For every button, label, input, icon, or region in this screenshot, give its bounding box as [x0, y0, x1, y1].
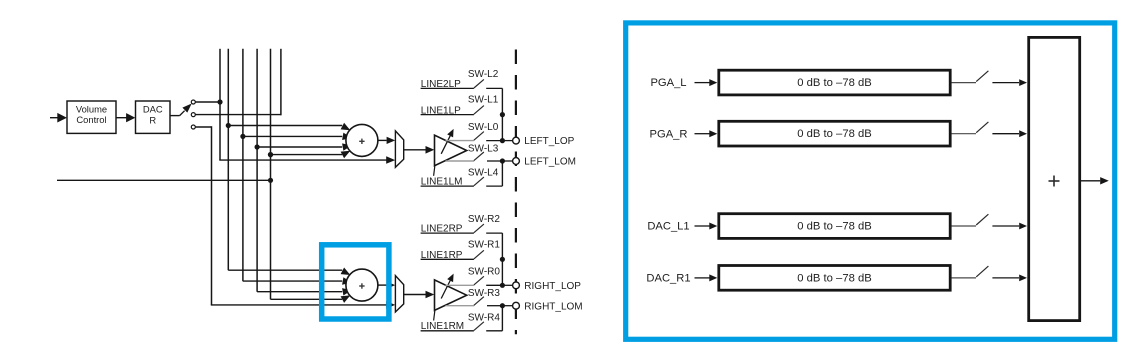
- svg-text:PGA_L: PGA_L: [650, 77, 686, 89]
- arrowhead left summing input 2: [342, 133, 352, 140]
- amp right output triangle: [435, 280, 467, 311]
- wire SW0 to rail: [486, 140, 502, 142]
- wire SW0 to rail: [486, 284, 502, 286]
- arrowhead DAC_L1 into attenuator: [709, 223, 717, 230]
- arrowhead left summing input 1: [341, 123, 351, 131]
- label DAC_R1: [646, 273, 690, 285]
- switch SW-R3: [474, 297, 484, 306]
- junction rail LOM: [500, 158, 505, 163]
- svg-text:RIGHT_LOM: RIGHT_LOM: [524, 301, 582, 312]
- svg-text:0 dB to –78 dB: 0 dB to –78 dB: [797, 77, 871, 89]
- switch SW arm DAC R: [180, 111, 185, 116]
- wire left mux to amp: [404, 149, 426, 151]
- arrowhead DAC_R1 into summer: [1019, 275, 1027, 282]
- summer block: [1029, 37, 1080, 320]
- wire LINE1LP: [421, 114, 474, 116]
- arrowhead into volume control: [57, 113, 67, 123]
- svg-text:DAC_L1: DAC_L1: [647, 221, 689, 233]
- wire to terminal RIGHT_LOP: [502, 284, 512, 286]
- attenuator box PGA_R: [719, 121, 950, 146]
- label SW-L2: [468, 69, 499, 80]
- bus line 5: [270, 49, 272, 300]
- switch SW-L4: [474, 177, 484, 186]
- wire left sum to mux: [378, 139, 387, 141]
- switch throw contact top: [191, 100, 195, 104]
- svg-text:LEFT_LOP: LEFT_LOP: [524, 136, 574, 147]
- wire SW-L4 to rail: [486, 185, 502, 187]
- switch SW-L2: [474, 79, 484, 88]
- arrowhead left summing input 3: [342, 143, 352, 150]
- junction rail row2: [500, 112, 505, 117]
- block DAC R: [136, 101, 171, 133]
- arrowhead left bypass into mux: [386, 156, 395, 164]
- svg-text:LEFT_LOM: LEFT_LOM: [524, 157, 576, 168]
- value label 0 dB to –78 dB PGA_R: [797, 128, 871, 140]
- svg-text:Volume: Volume: [76, 103, 107, 114]
- label SW-L3: [468, 144, 499, 155]
- junction bus line 2 left row 1: [226, 123, 231, 128]
- arrowhead summer output: [1100, 177, 1109, 184]
- junction rail LOM: [500, 303, 505, 308]
- wire right summing input 1 elbow: [228, 269, 342, 271]
- label SW-L1: [468, 95, 499, 106]
- arrowhead PGA_R into summer: [1019, 130, 1027, 137]
- label LEFT_LOM: [524, 157, 576, 168]
- arrowhead DAC_L1 into summer: [1019, 223, 1027, 230]
- wire to terminal LEFT_LOM: [502, 160, 512, 162]
- wire left summing input 3: [257, 146, 342, 148]
- switch after PGA_L: [976, 71, 988, 82]
- wire switch PGA_R to summer: [992, 133, 1019, 135]
- label LINE1LP: [421, 105, 461, 116]
- svg-text:SW-L1: SW-L1: [468, 95, 499, 106]
- label SW-R1: [468, 239, 500, 250]
- switch SW-L0: [474, 132, 484, 141]
- wire right bypass: [211, 304, 387, 306]
- wire amp to SW-L0: [446, 140, 475, 142]
- bus line 6: [280, 49, 282, 116]
- svg-text:0 dB to –78 dB: 0 dB to –78 dB: [797, 221, 871, 233]
- wire LINE1RP: [421, 258, 474, 260]
- label LEFT_LOP: [524, 136, 574, 147]
- attenuator box DAC_L1: [719, 214, 950, 239]
- value label 0 dB to –78 dB PGA_L: [797, 77, 871, 89]
- bus line 4: [256, 49, 258, 292]
- rail segment lower: [501, 306, 503, 331]
- wire right mux to amp: [404, 294, 426, 296]
- svg-text:R: R: [149, 114, 156, 125]
- wire switch DAC_L1 to summer: [992, 225, 1019, 227]
- arrowhead PGA_L into summer: [1019, 79, 1027, 86]
- wire attenuator PGA_R to switch: [952, 133, 977, 135]
- wire left bypass: [219, 159, 386, 161]
- amp left gain arrow line: [441, 136, 450, 154]
- switch throw contact bottom: [191, 125, 195, 129]
- wire left summing input 2: [243, 135, 342, 137]
- arrowhead right summing input 2: [342, 277, 352, 284]
- wire amp to SW-R0: [446, 284, 475, 286]
- wire bottom throw: [195, 126, 211, 128]
- rail segment upper: [501, 88, 503, 140]
- summing amp right: [346, 269, 378, 301]
- switch after DAC_L1: [976, 214, 988, 225]
- label SW-L4: [468, 168, 499, 179]
- highlight box right summing amp: [322, 245, 389, 319]
- svg-text:0 dB to –78 dB: 0 dB to –78 dB: [797, 272, 871, 284]
- wire right summing input 3 elbow: [257, 291, 342, 293]
- wire SW-R2 to rail: [486, 232, 502, 234]
- wire LINE2RP: [421, 232, 474, 234]
- svg-text:DAC: DAC: [143, 104, 163, 115]
- switch after DAC_R1: [976, 266, 988, 277]
- wire to terminal LEFT_LOP: [502, 140, 512, 142]
- svg-text:SW-L2: SW-L2: [468, 69, 499, 80]
- svg-text:SW-L3: SW-L3: [468, 144, 499, 155]
- wire DAC R to switch pivot: [170, 115, 180, 117]
- wire attenuator PGA_L to switch: [952, 82, 977, 84]
- mux right channel: [395, 276, 403, 312]
- svg-text:DAC_R1: DAC_R1: [646, 273, 690, 285]
- svg-text:RIGHT_LOP: RIGHT_LOP: [524, 281, 581, 292]
- switch after PGA_R: [976, 122, 988, 133]
- wire PGA_R to attenuator: [695, 133, 710, 135]
- label PGA_R: [650, 128, 688, 140]
- amp right gain arrowhead: [447, 274, 453, 283]
- junction bus line 5 left row 4: [268, 152, 273, 157]
- junction rail LOP: [500, 283, 505, 288]
- wire SW-R4 to rail: [486, 330, 502, 332]
- amp right corner tail: [434, 311, 435, 321]
- terminal RIGHT_LOP: [513, 282, 520, 289]
- wire attenuator DAC_L1 to switch: [952, 225, 977, 227]
- wire SW3 to rail: [487, 160, 502, 162]
- wire DAC_L1 to attenuator: [695, 225, 710, 227]
- arrowhead right bypass into mux: [386, 301, 395, 309]
- junction top throw bus line 1: [217, 99, 222, 104]
- terminal LEFT_LOM: [513, 158, 520, 165]
- wire bottom throw vertical: [211, 126, 213, 305]
- switch SW-R0: [474, 276, 484, 285]
- amp right gain arrow line: [441, 281, 450, 299]
- label RIGHT_LOP: [524, 281, 581, 292]
- panel border box: [626, 23, 1115, 339]
- block Volume Control: [67, 101, 116, 133]
- arrowhead into right amp: [426, 291, 435, 299]
- label LINE2RP: [421, 224, 463, 235]
- wire right summing input 4 elbow: [271, 298, 343, 300]
- wire to terminal RIGHT_LOM: [502, 305, 512, 307]
- label LINE1LM: [421, 176, 463, 187]
- switch SW-L1: [474, 106, 484, 115]
- wire middle throw to bus line 6: [195, 114, 281, 116]
- wire input to volume control: [50, 117, 59, 119]
- amp left gain arrowhead: [447, 129, 453, 138]
- svg-text:PGA_R: PGA_R: [650, 128, 688, 140]
- wire volume control to DAC R: [116, 117, 127, 119]
- svg-text:SW-L0: SW-L0: [468, 122, 499, 133]
- wire line input long: [57, 179, 271, 181]
- value label 0 dB to –78 dB DAC_L1: [797, 221, 871, 233]
- bus line 1: [219, 49, 221, 160]
- wire left summing input 4: [271, 154, 343, 156]
- bus line 2: [227, 49, 229, 270]
- junction bus line 4 left row 3: [255, 144, 260, 149]
- svg-text:SW-R4: SW-R4: [468, 312, 500, 323]
- junction bus line 3 left row 2: [240, 134, 245, 139]
- wire switch PGA_L to summer: [992, 82, 1019, 84]
- attenuator box DAC_R1: [719, 266, 950, 291]
- svg-text:0 dB to –78 dB: 0 dB to –78 dB: [797, 128, 871, 140]
- arrowhead left summing input 4: [341, 151, 351, 159]
- rail segment lower: [501, 161, 503, 186]
- label LINE1RM: [421, 321, 464, 332]
- wire top throw to bus line 1: [195, 101, 220, 103]
- label RIGHT_LOM: [524, 301, 582, 312]
- attenuator box PGA_L: [719, 70, 950, 95]
- wire LINE1LM: [421, 185, 474, 187]
- wire switch DAC_R1 to summer: [992, 277, 1019, 279]
- arrowhead right sum to mux: [387, 282, 396, 289]
- label SW-R0: [468, 267, 500, 278]
- arrowhead left sum to mux: [387, 137, 396, 144]
- amp left corner tail: [434, 166, 435, 176]
- dashed boundary line: [515, 50, 517, 335]
- wire amp to SW-L3: [446, 160, 475, 162]
- switch throw contact middle: [191, 113, 195, 117]
- arrowhead into DAC R: [126, 113, 135, 122]
- arrowhead PGA_L into attenuator: [709, 79, 717, 86]
- label SW-R4: [468, 312, 500, 323]
- wire SW-L2 to rail: [486, 87, 502, 89]
- label LINE2LP: [421, 79, 461, 90]
- switch SW-R1: [474, 250, 484, 259]
- wire PGA_L to attenuator: [695, 82, 710, 84]
- junction bus line 5 left row 4b: [268, 152, 273, 157]
- label SW-L0: [468, 122, 499, 133]
- label LINE1RP: [421, 250, 463, 261]
- arrowhead DAC_R1 into attenuator: [709, 274, 717, 281]
- wire right sum to mux: [378, 284, 387, 286]
- svg-text:SW-L4: SW-L4: [468, 168, 499, 179]
- mux left channel: [395, 131, 403, 167]
- amp left output triangle: [435, 135, 467, 166]
- junction long input bus line 5: [268, 178, 273, 183]
- label SW-R3: [468, 288, 500, 299]
- wire LINE1RM: [421, 330, 474, 332]
- arrowhead into left amp: [426, 146, 435, 154]
- svg-text:SW-R1: SW-R1: [468, 239, 500, 250]
- wire DAC_R1 to attenuator: [695, 277, 710, 279]
- bus line 3: [242, 49, 244, 281]
- label DAC_L1: [647, 221, 689, 233]
- switch SW-R4: [474, 322, 484, 331]
- terminal RIGHT_LOM: [513, 302, 520, 309]
- arrowhead right summing input 3: [342, 288, 352, 295]
- wire summer output: [1080, 180, 1100, 182]
- wire right summing input 2 elbow: [243, 280, 342, 282]
- rail segment upper: [501, 233, 503, 285]
- switch SW-R2: [474, 224, 484, 233]
- wire attenuator DAC_R1 to switch: [952, 277, 977, 279]
- wire SW3 to rail: [487, 305, 502, 307]
- wire left summing input 1: [228, 125, 342, 127]
- svg-text:Control: Control: [76, 114, 106, 125]
- arrowhead right summing input 4: [341, 295, 351, 303]
- wire amp to SW-R3: [446, 305, 475, 307]
- terminal LEFT_LOP: [513, 137, 520, 144]
- arrowhead PGA_R into attenuator: [709, 130, 717, 137]
- wire LINE2LP: [421, 87, 474, 89]
- arrowhead switch arm: [182, 104, 191, 113]
- svg-text:SW-R3: SW-R3: [468, 288, 500, 299]
- junction rail LOP: [500, 138, 505, 143]
- junction rail row2: [500, 257, 505, 262]
- switch SW-L3: [474, 152, 484, 161]
- value label 0 dB to –78 dB DAC_R1: [797, 272, 871, 284]
- summing amp left: [346, 124, 378, 156]
- label SW-R2: [468, 214, 500, 225]
- label PGA_L: [650, 77, 686, 89]
- svg-text:SW-R2: SW-R2: [468, 214, 500, 225]
- svg-text:SW-R0: SW-R0: [468, 267, 500, 278]
- arrowhead right summing input 1: [341, 268, 351, 276]
